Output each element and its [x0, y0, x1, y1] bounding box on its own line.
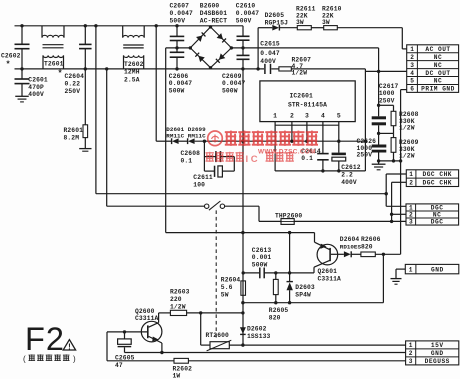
svg-text:RGP15J: RGP15J: [265, 19, 288, 26]
svg-text:C2617: C2617: [379, 83, 399, 90]
svg-text:500W: 500W: [222, 87, 238, 94]
svg-text:0.1: 0.1: [181, 157, 193, 164]
svg-text:3: 3: [409, 358, 413, 365]
svg-text:C2601: C2601: [28, 77, 48, 84]
svg-text:500W: 500W: [252, 261, 268, 268]
svg-text:C2613: C2613: [252, 247, 272, 254]
svg-text:1: 1: [409, 171, 413, 178]
svg-text:IC2601: IC2601: [290, 93, 313, 100]
svg-text:!: !: [68, 342, 71, 351]
svg-text:T2601: T2601: [44, 61, 64, 68]
svg-text:5: 5: [410, 78, 414, 85]
svg-text:R2606: R2606: [361, 236, 381, 243]
svg-text:B2600: B2600: [200, 3, 220, 10]
svg-text:C2626: C2626: [357, 138, 377, 145]
svg-text:1: 1: [273, 113, 277, 120]
svg-text:250V: 250V: [357, 152, 373, 159]
svg-text:DC OUT: DC OUT: [425, 70, 450, 77]
svg-text:C3311A: C3311A: [135, 315, 158, 322]
svg-text:DGC CHK: DGC CHK: [423, 171, 453, 178]
svg-text:NC: NC: [433, 212, 441, 219]
svg-text:100: 100: [193, 181, 205, 188]
svg-text:RM11C RM11C: RM11C RM11C: [166, 133, 206, 140]
svg-text:DEGUSS: DEGUSS: [425, 358, 450, 365]
svg-text:250V: 250V: [65, 88, 81, 95]
svg-text:500W: 500W: [169, 87, 185, 94]
svg-text:R2605: R2605: [269, 307, 289, 314]
svg-text:470P: 470P: [28, 84, 44, 91]
svg-text:DGC: DGC: [431, 205, 444, 212]
svg-text:0.001: 0.001: [252, 254, 272, 261]
svg-text:250V: 250V: [379, 98, 395, 105]
svg-text:1/2W: 1/2W: [399, 125, 415, 132]
svg-text:C2604: C2604: [65, 73, 85, 80]
svg-text:D4SB601: D4SB601: [200, 10, 227, 17]
svg-text:0.0047: 0.0047: [236, 10, 259, 17]
svg-text:4: 4: [321, 113, 325, 120]
svg-text:C2602: C2602: [1, 53, 21, 60]
svg-text:0.22: 0.22: [65, 80, 81, 87]
svg-text:C2610: C2610: [236, 3, 256, 10]
svg-text:1/2W: 1/2W: [292, 70, 308, 77]
svg-text:Q2600: Q2600: [135, 308, 155, 315]
svg-text:1SS133: 1SS133: [247, 333, 270, 340]
svg-text:RD10ES: RD10ES: [340, 243, 362, 250]
svg-text:6: 6: [410, 86, 414, 93]
svg-text:R2601: R2601: [64, 127, 84, 134]
svg-text:15V: 15V: [431, 342, 444, 349]
svg-text:R2603: R2603: [170, 289, 190, 296]
svg-text:0.0047: 0.0047: [222, 80, 245, 87]
svg-text:D2605: D2605: [265, 12, 285, 19]
svg-text:12MH: 12MH: [124, 68, 140, 75]
svg-text:): ): [73, 355, 76, 364]
svg-text:SP4W: SP4W: [295, 292, 311, 299]
svg-text:D2602: D2602: [247, 326, 267, 333]
svg-text:3: 3: [410, 62, 414, 69]
svg-text:(: (: [23, 355, 26, 364]
svg-text:F2: F2: [25, 321, 65, 357]
svg-text:5: 5: [337, 113, 341, 120]
svg-text:500V: 500V: [236, 18, 252, 25]
svg-text:400V: 400V: [28, 91, 44, 98]
svg-text:STR-81145A: STR-81145A: [288, 101, 327, 108]
svg-text:47: 47: [115, 362, 123, 369]
svg-text:1: 1: [409, 205, 413, 212]
svg-text:D2603: D2603: [295, 284, 315, 291]
svg-text:AC OUT: AC OUT: [425, 46, 450, 53]
svg-text:2: 2: [409, 350, 413, 357]
svg-text:*: *: [6, 60, 11, 70]
svg-text:4: 4: [410, 70, 414, 77]
svg-text:DGC CHK: DGC CHK: [423, 180, 453, 187]
svg-text:2.2: 2.2: [341, 171, 353, 178]
svg-text:C2615: C2615: [260, 41, 280, 48]
svg-text:R2604: R2604: [221, 276, 241, 283]
svg-text:820: 820: [269, 314, 281, 321]
svg-text:C2606: C2606: [169, 73, 189, 80]
svg-text:400V: 400V: [260, 58, 276, 65]
svg-text:0.1: 0.1: [301, 155, 313, 162]
svg-text:3: 3: [305, 113, 309, 120]
svg-text:C2607: C2607: [170, 3, 190, 10]
svg-text:1/2W: 1/2W: [399, 153, 415, 160]
svg-text:C2609: C2609: [222, 73, 242, 80]
svg-text:GND: GND: [431, 266, 444, 273]
svg-text:THP2600: THP2600: [275, 212, 302, 219]
svg-text:1000: 1000: [379, 90, 395, 97]
svg-text:2: 2: [409, 180, 413, 187]
svg-text:1: 1: [409, 342, 413, 349]
svg-text:RT2600: RT2600: [206, 332, 229, 339]
svg-text:T2602: T2602: [124, 61, 144, 68]
svg-text:AC-RECT: AC-RECT: [200, 18, 227, 25]
svg-text:C3311A: C3311A: [318, 276, 341, 283]
svg-text:GND: GND: [431, 350, 444, 357]
svg-text:8.2M: 8.2M: [64, 134, 80, 141]
svg-text:2.5A: 2.5A: [124, 76, 140, 83]
svg-text:1W: 1W: [173, 373, 181, 379]
svg-text:R2602: R2602: [173, 365, 193, 372]
svg-text:5.6: 5.6: [221, 284, 233, 291]
svg-text:0.0047: 0.0047: [169, 80, 192, 87]
svg-text:Q2601: Q2601: [318, 268, 338, 275]
svg-text:1: 1: [410, 46, 414, 53]
svg-text:NC: NC: [434, 62, 442, 69]
svg-text:0.047: 0.047: [260, 50, 280, 57]
svg-text:PRIM GND: PRIM GND: [421, 86, 455, 93]
svg-text:220: 220: [170, 296, 182, 303]
svg-text:I C: I C: [246, 154, 258, 165]
svg-text:1/2W: 1/2W: [170, 303, 186, 310]
svg-text:C2612: C2612: [341, 164, 361, 171]
svg-text:2: 2: [290, 113, 294, 120]
svg-text:3W: 3W: [322, 19, 330, 26]
svg-text:3W: 3W: [296, 19, 304, 26]
svg-text:*: *: [58, 69, 63, 79]
svg-text:2: 2: [410, 54, 414, 61]
svg-text:5W: 5W: [221, 292, 229, 299]
svg-text:0.0047: 0.0047: [170, 10, 193, 17]
svg-text:820: 820: [361, 243, 373, 250]
svg-text:500V: 500V: [170, 18, 186, 25]
svg-text:C2611: C2611: [193, 174, 213, 181]
svg-text:NC: NC: [434, 54, 442, 61]
svg-text:C2608: C2608: [181, 150, 201, 157]
svg-text:NC: NC: [434, 78, 442, 85]
svg-text:3: 3: [409, 219, 413, 226]
svg-text:C2605: C2605: [115, 355, 135, 362]
svg-text:2: 2: [409, 212, 413, 219]
svg-text:DGC: DGC: [431, 219, 444, 226]
svg-text:400V: 400V: [341, 179, 357, 186]
svg-text:1: 1: [409, 266, 413, 273]
svg-text:D2604: D2604: [340, 236, 360, 243]
